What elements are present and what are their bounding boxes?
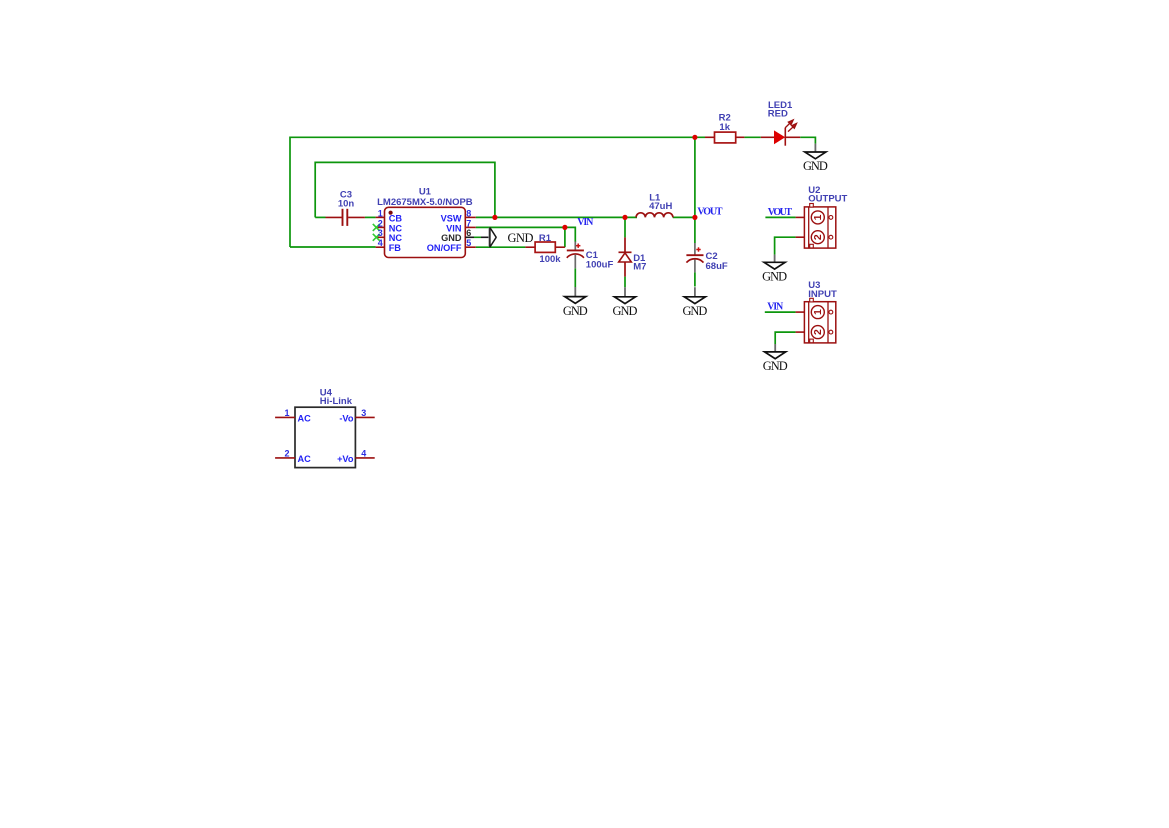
svg-text:3: 3 — [361, 408, 366, 418]
wire R2 right to LED — [744, 136, 760, 138]
wire VIN to U3 — [765, 311, 796, 313]
svg-text:3: 3 — [378, 228, 383, 238]
svg-text:VSW: VSW — [441, 213, 462, 223]
junction dot VSW-loop — [492, 215, 497, 220]
svg-text:NC: NC — [389, 223, 403, 233]
capacitor C1 — [567, 242, 614, 271]
ground flag GND (pin6) — [489, 228, 533, 248]
junction dot VOUT top — [692, 135, 697, 140]
svg-text:1: 1 — [812, 214, 824, 220]
module U4 — [275, 388, 375, 468]
capacitor C3 — [326, 189, 365, 226]
svg-text:GND: GND — [682, 304, 707, 318]
wire U2 pin2 to GND — [775, 237, 796, 254]
ground LED1 — [803, 144, 828, 174]
svg-text:7: 7 — [466, 218, 471, 228]
svg-text:100k: 100k — [539, 254, 561, 265]
svg-text:LM2675MX-5.0/NOPB: LM2675MX-5.0/NOPB — [377, 197, 473, 208]
junction dot VOUT — [692, 215, 697, 220]
svg-text:4: 4 — [378, 238, 383, 248]
connector U3 — [796, 280, 837, 343]
wire VIN row — [476, 227, 576, 242]
wire CB-VSW loop — [315, 162, 495, 217]
svg-text:2: 2 — [812, 329, 824, 335]
ground D1 — [613, 287, 638, 318]
svg-text:1: 1 — [812, 309, 824, 315]
svg-text:+Vo: +Vo — [337, 454, 354, 464]
svg-text:VIN: VIN — [767, 301, 784, 312]
wire R1 branch vertical — [564, 227, 566, 247]
junction dot R1-VIN — [562, 225, 567, 230]
svg-text:1k: 1k — [719, 122, 730, 133]
svg-text:GND: GND — [613, 304, 638, 318]
svg-text:VOUT: VOUT — [697, 207, 723, 218]
svg-text:R1: R1 — [539, 233, 552, 244]
svg-text:6: 6 — [466, 228, 471, 238]
inductor L1 — [636, 192, 673, 217]
wire U3 pin2 to GND — [775, 332, 795, 344]
svg-text:AC: AC — [298, 414, 312, 424]
svg-text:1: 1 — [284, 408, 289, 418]
ground C2 — [682, 287, 707, 318]
NC cross pin2 — [373, 224, 380, 231]
svg-text:INPUT: INPUT — [808, 289, 837, 300]
connector U2 — [796, 185, 848, 248]
svg-text:CB: CB — [389, 213, 403, 223]
LED LED1 — [761, 100, 800, 146]
ground U3 — [763, 344, 788, 373]
svg-text:AC: AC — [298, 454, 312, 464]
svg-text:VIN: VIN — [577, 217, 594, 228]
wire top VOUT-FB loop — [290, 137, 705, 247]
wire C1 column — [574, 268, 576, 287]
U1 pin stubs left — [376, 216, 385, 218]
svg-text:VOUT: VOUT — [768, 207, 793, 218]
svg-text:Hi-Link: Hi-Link — [320, 396, 353, 407]
svg-text:10n: 10n — [338, 199, 355, 210]
svg-text:FB: FB — [389, 243, 402, 253]
ground U2 — [762, 255, 787, 284]
svg-text:2: 2 — [378, 218, 383, 228]
wire VOUT to U2 — [765, 216, 795, 218]
wire FB row — [290, 246, 376, 248]
wire pin1 row segments — [315, 216, 325, 218]
wire LED to GND corner — [800, 137, 815, 143]
svg-text:100uF: 100uF — [586, 259, 614, 270]
svg-text:M7: M7 — [633, 262, 646, 273]
ground C1 — [563, 287, 588, 318]
diode D1 — [619, 237, 647, 276]
wire ON/OFF row — [476, 246, 526, 248]
svg-text:68uF: 68uF — [706, 261, 728, 272]
svg-text:4: 4 — [361, 448, 366, 458]
svg-text:OUTPUT: OUTPUT — [808, 194, 847, 205]
svg-text:GND: GND — [763, 359, 788, 373]
NC cross pin3 — [373, 234, 380, 241]
svg-text:GND: GND — [762, 270, 787, 284]
svg-text:GND: GND — [563, 304, 588, 318]
svg-text:ON/OFF: ON/OFF — [427, 243, 462, 253]
svg-text:47uH: 47uH — [649, 201, 672, 212]
svg-text:GND: GND — [441, 233, 462, 243]
U1 pin stubs right — [465, 216, 476, 218]
svg-text:5: 5 — [466, 238, 471, 248]
wire C2 column — [694, 217, 696, 243]
resistor R2 — [705, 112, 744, 143]
svg-text:8: 8 — [466, 208, 471, 218]
capacitor C2 — [686, 243, 727, 272]
resistor R1 — [525, 233, 561, 265]
svg-text:2: 2 — [812, 234, 824, 240]
svg-text:GND: GND — [803, 159, 828, 173]
junction dot D1 — [622, 215, 627, 220]
svg-text:2: 2 — [284, 448, 289, 458]
wire VOUT vertical — [694, 137, 696, 217]
wire L1 to VOUT junction — [673, 216, 695, 218]
U1 pin6 wire to GND flag — [465, 236, 474, 238]
op U1 body — [385, 207, 466, 257]
svg-text:RED: RED — [768, 109, 788, 120]
wire VSW row — [476, 216, 637, 218]
wire R1 right stub row — [555, 246, 565, 248]
svg-text:1: 1 — [378, 208, 383, 218]
svg-text:GND: GND — [508, 231, 534, 245]
svg-text:-Vo: -Vo — [339, 414, 354, 424]
svg-text:NC: NC — [389, 233, 403, 243]
wire D1 column — [624, 217, 626, 237]
svg-text:VIN: VIN — [446, 223, 462, 233]
